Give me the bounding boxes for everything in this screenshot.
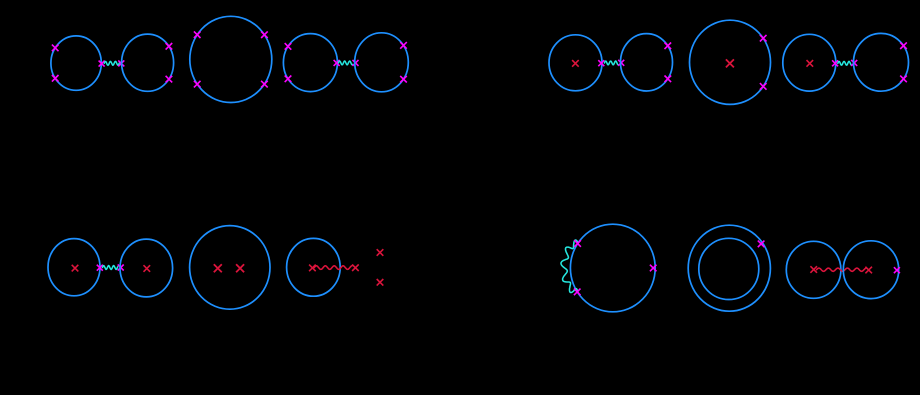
- fermion loop L10: [854, 33, 909, 91]
- red photon propagator W8: [817, 268, 867, 271]
- fermion loop L11: [48, 239, 100, 296]
- cross insertion on L1 lower left: [52, 75, 59, 82]
- fermion loop L18: [786, 241, 841, 298]
- fermion loop L6: [549, 35, 602, 91]
- cross vertex L7 left: [618, 60, 624, 66]
- photon propagator W5: [102, 266, 117, 270]
- mass counterterm cross in L13 right: [236, 264, 244, 272]
- cross insertion on L4 upper left: [285, 43, 292, 50]
- cross insertion on L2 upper right: [166, 43, 173, 50]
- fermion loop L7: [621, 34, 673, 91]
- fermion loop L17 (inner): [699, 238, 759, 299]
- fermion loop L14: [287, 238, 341, 296]
- cross vertex L12 left: [118, 265, 124, 271]
- cross insertion on L1 upper left: [52, 45, 59, 52]
- lone cross upper: [377, 249, 384, 256]
- fermion loop L16 (outer): [688, 225, 770, 311]
- cross insertion on L3 upper left: [194, 31, 201, 38]
- fermion loop L5: [355, 33, 409, 92]
- fermion loop L3 (large): [190, 16, 272, 102]
- mass counterterm cross in L6 center: [572, 60, 579, 67]
- fermion loop L15 (large): [570, 224, 655, 312]
- lone cross lower: [377, 279, 384, 286]
- cross vertex L2 left: [118, 60, 124, 66]
- mass counterterm cross in L12 center: [144, 265, 151, 272]
- fermion loop L1: [51, 36, 101, 90]
- cross vertex L10 left: [851, 60, 857, 66]
- cross vertex L9 right: [832, 60, 838, 66]
- cross vertex L5 left: [353, 60, 359, 66]
- mass counterterm cross in L18 center: [810, 266, 817, 273]
- cross insertion on L2 lower right: [166, 76, 173, 83]
- photon arc W7: [561, 240, 578, 293]
- mass counterterm cross in L11 center: [72, 265, 79, 272]
- cross vertex L15 lower left: [574, 289, 581, 296]
- photon propagator W1: [104, 61, 119, 65]
- red photon propagator W6: [314, 266, 352, 270]
- mass counterterm cross in L19 center: [865, 267, 872, 274]
- cross vertex L11 right: [97, 265, 103, 271]
- cross vertex L1 right: [99, 61, 105, 67]
- cross at W6 end: [352, 264, 359, 271]
- fermion loop L8 (large): [690, 20, 771, 104]
- cross insertion on L8 upper right: [760, 35, 767, 42]
- photon propagator W4: [838, 61, 852, 65]
- fermion loop L19: [843, 241, 898, 299]
- cross vertex L4 right: [334, 60, 340, 66]
- fermion loop L12: [120, 239, 173, 297]
- cross insertion on L3 upper right: [261, 31, 268, 38]
- fermion loop L2: [122, 34, 174, 91]
- fermion loop L13 (large): [190, 226, 270, 310]
- cross insertion on L16 upper right: [758, 241, 765, 248]
- cross vertex L15 upper left: [574, 240, 581, 247]
- mass counterterm cross in L8 center: [726, 59, 734, 67]
- fermion loop L9: [783, 34, 836, 91]
- cross vertex L6 right: [598, 60, 604, 66]
- cross insertion on L10 lower right: [900, 76, 907, 83]
- photon propagator W2: [338, 61, 352, 65]
- cross insertion on L4 lower left: [285, 76, 292, 83]
- mass counterterm cross in L14 center: [309, 265, 316, 272]
- cross insertion on L5 upper right: [400, 42, 407, 49]
- fermion loop L4: [283, 34, 337, 92]
- cross insertion on L8 lower right: [760, 83, 767, 90]
- mass counterterm cross in L9 center: [807, 60, 814, 67]
- cross insertion on L3 lower left: [194, 81, 201, 88]
- cross insertion on L7 upper right: [665, 43, 672, 50]
- cross insertion on L10 upper right: [900, 42, 907, 49]
- cross insertion on L7 lower right: [665, 76, 672, 83]
- cross insertion on L3 lower right: [261, 81, 268, 88]
- cross insertion on L5 lower right: [400, 76, 407, 83]
- cross insertion on L19 right: [894, 267, 900, 273]
- photon propagator W3: [604, 61, 618, 65]
- mass counterterm cross in L13 left: [214, 264, 222, 272]
- cross insertion on L15 right: [650, 265, 657, 272]
